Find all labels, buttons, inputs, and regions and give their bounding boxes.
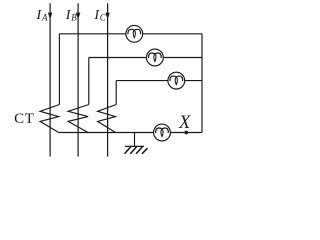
arrowhead current direction I_C (105, 13, 109, 20)
meter P1 on line A (126, 25, 143, 42)
meter P4 in neutral (154, 124, 171, 141)
svg-text:CT: CT (14, 111, 35, 127)
node X junction dot (184, 131, 188, 135)
wire phase C vertical (107, 3, 109, 156)
wire phase A vertical (49, 3, 51, 156)
wire right bus vertical (201, 34, 203, 133)
wire phase B vertical (77, 3, 79, 156)
CT secondary winding C (zigzag) (98, 105, 117, 133)
svg-text:C: C (100, 13, 107, 23)
arrowhead current direction I_B (76, 13, 80, 20)
label I_A (36, 8, 49, 23)
svg-text:A: A (41, 13, 48, 23)
CT secondary winding A (zigzag) (40, 105, 59, 133)
wire line B horizontal to meter 2 and bus (89, 57, 202, 59)
arrowhead current direction I_A (48, 13, 52, 20)
wire secondary riser B (88, 58, 90, 105)
wire secondary riser C (115, 81, 117, 105)
meter P3 on line C (168, 72, 185, 89)
meter P2 on line B (147, 49, 164, 66)
wire secondary riser A (58, 34, 60, 105)
wire line C horizontal to meter 3 and bus (116, 80, 202, 82)
wire line A horizontal to meter 1 and bus (59, 33, 202, 35)
CT secondary winding B (zigzag) (68, 105, 89, 133)
svg-text:X: X (178, 113, 191, 133)
ground (125, 133, 148, 154)
svg-text:B: B (71, 13, 77, 23)
label I_C (93, 8, 106, 23)
wire bottom neutral (59, 132, 202, 134)
label I_B (65, 8, 78, 23)
